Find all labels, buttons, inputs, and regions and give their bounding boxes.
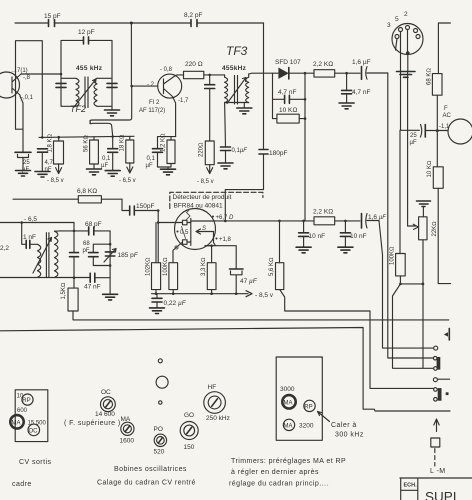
dashed link	[434, 449, 436, 466]
transformer TF2	[61, 78, 112, 106]
svg-text:RP: RP	[304, 404, 312, 410]
box CV sorties	[15, 390, 48, 442]
capacitor 25µF AGC	[424, 125, 426, 138]
svg-text:180pF: 180pF	[269, 150, 287, 157]
resistor 1,5K	[73, 278, 75, 288]
capacitor 8,2pF	[191, 20, 197, 27]
wire FI2 emitter down	[173, 97, 176, 137]
wire source to 47µF	[205, 246, 236, 269]
box link	[431, 438, 440, 447]
arrow -8,5v under 220	[207, 165, 213, 174]
capacitor 150pF injection	[122, 199, 158, 263]
capacitor 47nF	[90, 273, 95, 282]
svg-text:AC: AC	[443, 113, 452, 119]
svg-text:SUPI: SUPI	[425, 490, 457, 500]
svg-text:-,8: -,8	[23, 75, 31, 81]
wire pot bottom down	[422, 240, 424, 368]
svg-text:0,1: 0,1	[102, 156, 111, 162]
wire top right stub	[438, 23, 450, 74]
arrow pot wiper	[408, 224, 419, 229]
ground FI2 emitter	[161, 169, 176, 175]
capacitor 68pF padding	[93, 244, 110, 265]
svg-text:15 pF: 15 pF	[44, 13, 61, 20]
wire 1,6µF down right	[388, 73, 434, 358]
capacitor 185pF variable	[105, 252, 114, 256]
transformer TF3	[225, 74, 249, 103]
chassis symbol right	[448, 328, 450, 340]
capacitor 0,1µF emitter	[153, 149, 163, 153]
svg-text:1 nF: 1 nF	[23, 234, 36, 241]
connector DIN	[392, 24, 423, 55]
svg-text:OC: OC	[101, 389, 111, 396]
resistor 18K	[129, 136, 131, 140]
svg-text:cadre: cadre	[12, 481, 32, 488]
svg-text:100KΩ: 100KΩ	[390, 246, 396, 265]
wire neutralization tap to top bus	[130, 23, 132, 86]
wire diode to 2,2K	[289, 72, 314, 74]
ground 0,1µF TF3	[218, 163, 233, 169]
switch contact circle mid	[433, 378, 437, 382]
svg-text:Bobines oscillatrices: Bobines oscillatrices	[114, 466, 187, 473]
capacitor 4,7nF decoupling	[346, 73, 348, 103]
wire DIN pin5 down	[399, 32, 402, 254]
wire AGC line	[400, 129, 448, 131]
wire gate1	[158, 222, 182, 224]
svg-text:Caler à: Caler à	[331, 422, 357, 429]
capacitor 180pF	[259, 150, 268, 155]
svg-text:1,5KΩ: 1,5KΩ	[61, 282, 67, 299]
svg-text:- 6,5: - 6,5	[24, 216, 37, 223]
capacitor 0,22µF	[156, 294, 158, 308]
svg-text:10 nF: 10 nF	[309, 233, 326, 240]
svg-text:Détecteur de produit: Détecteur de produit	[173, 194, 232, 201]
wire 100K bottom to pot line	[400, 276, 423, 284]
svg-text:4,7 nF: 4,7 nF	[352, 89, 370, 96]
wire emitter AF117(1) down	[16, 96, 24, 152]
svg-text:2,2 KΩ: 2,2 KΩ	[313, 209, 333, 216]
svg-text:µF: µF	[101, 163, 108, 169]
wire 220ohm to TF3	[204, 74, 225, 76]
svg-text:AF 117(2): AF 117(2)	[139, 108, 165, 114]
svg-text:25: 25	[23, 160, 30, 166]
resistor 100K gate2	[169, 263, 178, 290]
svg-text:TF2: TF2	[70, 104, 86, 114]
svg-text:1,2 KΩ: 1,2 KΩ	[161, 133, 167, 152]
switch tick	[446, 392, 449, 395]
capacitor on 47nF leg	[73, 231, 75, 278]
svg-text:25: 25	[410, 133, 417, 139]
svg-text:pF: pF	[83, 248, 90, 254]
ground 10nF second	[338, 247, 353, 253]
svg-text:0,5: 0,5	[180, 230, 189, 236]
ground TF2	[111, 106, 113, 110]
wire FI2 base	[132, 85, 158, 87]
wire 10K down to switch	[438, 188, 450, 283]
svg-text:10 nF: 10 nF	[350, 233, 367, 240]
svg-text:455 kHz: 455 kHz	[76, 65, 103, 72]
svg-text:- 0,8: - 0,8	[160, 67, 173, 73]
svg-text:102KΩ: 102KΩ	[146, 257, 152, 276]
svg-text:68: 68	[83, 241, 90, 247]
capacitor TF3 tank	[205, 85, 215, 89]
svg-text:à régler en dernier après: à régler en dernier après	[231, 469, 319, 476]
svg-text:SFD 107: SFD 107	[275, 59, 301, 66]
wire tank right leg	[109, 231, 111, 294]
trimmer MA 3200	[283, 419, 294, 430]
svg-text:Trimmers: préréglages MA et RP: Trimmers: préréglages MA et RP	[231, 458, 346, 465]
bus2 wire	[0, 328, 450, 412]
capacitor 1,6µF mid electrolytic	[361, 214, 363, 229]
svg-text:2,2: 2,2	[0, 245, 9, 252]
resistor 56K	[93, 137, 95, 140]
wire TF2 secondary loop to FI2 base	[90, 86, 132, 136]
svg-text:réglage du cadran princip….: réglage du cadran princip….	[229, 481, 329, 488]
potentiometer 22K	[419, 217, 427, 240]
ground 0,1µF bias	[105, 171, 120, 177]
svg-text:3200: 3200	[299, 423, 314, 430]
capacitor 4,7nF diode load	[273, 73, 306, 99]
wire drain bus	[216, 220, 361, 222]
ground 4,7nF	[35, 172, 50, 178]
svg-text:3,3 KΩ: 3,3 KΩ	[201, 257, 207, 276]
trimmer RP	[304, 400, 315, 411]
svg-text:220Ω: 220Ω	[199, 142, 205, 157]
ground 10nF first	[296, 247, 311, 253]
ground DIN	[397, 72, 416, 78]
svg-text:1,6 µF: 1,6 µF	[368, 214, 386, 221]
svg-text:HF: HF	[208, 384, 217, 391]
ground 22K pot top	[417, 201, 431, 207]
svg-text:PO: PO	[154, 426, 163, 433]
svg-text:S: S	[202, 226, 206, 232]
wire box left shield	[16, 41, 43, 138]
svg-text:4,7: 4,7	[45, 160, 54, 166]
svg-text:8,2 pF: 8,2 pF	[184, 12, 202, 19]
svg-text:22KΩ: 22KΩ	[432, 221, 438, 237]
oscillator transformer	[38, 244, 41, 277]
capacitor 25µF electrolytic	[15, 151, 31, 153]
svg-text:MA: MA	[12, 420, 21, 426]
arrow up to switch	[434, 419, 439, 432]
svg-text:µF: µF	[146, 163, 153, 169]
arrow -8,5v under 1,8K	[56, 164, 62, 174]
svg-text:Calage du cadran CV rentré: Calage du cadran CV rentré	[97, 480, 196, 487]
resistor 1,2K	[167, 140, 175, 164]
svg-text:0,1µF: 0,1µF	[232, 148, 248, 154]
capacitor 10nF first	[303, 221, 305, 247]
box trimmers MA RP	[276, 357, 322, 440]
svg-text:F: F	[444, 106, 448, 112]
svg-text:-,0,1: -,0,1	[21, 95, 34, 101]
trimmer MA cv	[10, 415, 23, 428]
svg-text:3000: 3000	[280, 386, 295, 393]
capacitor 0,1µF bias	[112, 137, 114, 171]
arrow caler	[318, 412, 330, 422]
resistor 3,3K	[211, 246, 213, 263]
svg-text:100KΩ: 100KΩ	[163, 257, 169, 276]
resistor 1,8K	[58, 137, 60, 141]
svg-text:MA: MA	[284, 423, 293, 429]
svg-text:10 KΩ: 10 KΩ	[427, 160, 433, 177]
box detecteur de produit	[170, 192, 263, 208]
resistor 102K	[155, 223, 157, 263]
wire TF3 left leg	[209, 75, 211, 141]
transistor AF117(1)	[0, 72, 20, 98]
capacitor 10nF second	[344, 221, 346, 247]
oscillator feed wire	[0, 223, 74, 231]
svg-text:520: 520	[154, 449, 165, 456]
ground 0,22µF	[150, 308, 165, 314]
ground 4,7nF decoupling	[339, 103, 354, 109]
rail bias TF2 row	[39, 136, 134, 137]
svg-text:RP: RP	[22, 398, 30, 404]
svg-text:10 KΩ: 10 KΩ	[279, 107, 297, 114]
svg-text:- 8,5 v: - 8,5 v	[255, 292, 274, 299]
wire 47nF bottom	[0, 277, 110, 279]
svg-text:-1,7: -1,7	[178, 98, 189, 104]
svg-text:56 KΩ: 56 KΩ	[84, 135, 90, 152]
trimmer RP cv	[22, 394, 33, 405]
wire FI2 collector	[174, 75, 184, 77]
resistor 220 ohm emitter-leg	[205, 141, 214, 165]
label mosfet pins	[212, 216, 214, 218]
svg-text:TF3: TF3	[226, 44, 248, 58]
resistor 10K diode load	[273, 99, 306, 118]
svg-text:- 8,5 v: - 8,5 v	[47, 178, 64, 184]
svg-text:220 Ω: 220 Ω	[185, 61, 203, 68]
wire 2,2K to 1,6µF	[335, 72, 360, 74]
wire diode output down	[304, 73, 306, 221]
switch bar 2	[438, 388, 442, 401]
resistor 220 ohm collector	[184, 71, 204, 78]
capacitor 12pF	[84, 37, 89, 44]
resistor 6,8K	[13, 198, 122, 200]
capacitor 1,6µF top electrolytic	[361, 67, 363, 80]
wire 5,6K down and right (to switch)	[280, 290, 434, 389]
wire collector AF117(1) to TF2	[21, 73, 61, 75]
svg-text:5,6 KΩ: 5,6 KΩ	[269, 257, 275, 276]
resistor 68K	[432, 74, 442, 96]
svg-text:47 nF: 47 nF	[84, 284, 101, 291]
wire 1,6µF mid down to switch	[379, 221, 434, 349]
resistor 10K right	[436, 131, 438, 167]
resistor 100K right	[396, 254, 406, 276]
svg-text:1,8 KΩ: 1,8 KΩ	[48, 133, 54, 152]
wire TF3 to diode	[249, 72, 279, 75]
svg-text:1600: 1600	[120, 438, 135, 445]
svg-text:MA: MA	[284, 400, 293, 406]
alignment dots	[158, 359, 162, 363]
svg-text:FI 2: FI 2	[149, 100, 160, 106]
resistor 5,6K	[279, 221, 281, 263]
rail FI2 emitter	[158, 137, 176, 170]
wire 1,5K to bus1	[73, 311, 449, 320]
svg-text:1,6 µF: 1,6 µF	[352, 59, 371, 66]
wire vertical from top bus to detector	[225, 23, 263, 221]
capacitor 0,1µF TF3	[224, 103, 227, 164]
svg-text:0,1: 0,1	[147, 156, 156, 162]
capacitor 4,7nF	[38, 149, 48, 152]
ground 25µF	[16, 171, 31, 177]
svg-text:ECH.: ECH.	[404, 483, 418, 489]
resistor 2,2K mid	[314, 217, 335, 225]
svg-text:( F. supérieure ): ( F. supérieure )	[64, 420, 121, 427]
diode SFD107	[278, 68, 288, 79]
svg-text:2: 2	[404, 11, 408, 18]
switch bar 1	[437, 357, 441, 370]
svg-text:- 2: - 2	[147, 82, 155, 88]
svg-text:3: 3	[387, 22, 391, 29]
title block	[400, 478, 472, 500]
svg-text:OC: OC	[29, 428, 39, 434]
svg-text:18 KΩ: 18 KΩ	[120, 134, 126, 151]
capacitor 1nF	[22, 223, 38, 245]
svg-text:0,22 µF: 0,22 µF	[164, 300, 187, 307]
mosfet BFR84	[175, 209, 216, 250]
wire top bus	[15, 22, 264, 24]
svg-text:4,7 nF: 4,7 nF	[278, 89, 296, 96]
svg-text:150pF: 150pF	[136, 203, 154, 210]
transistor BF output (clipped)	[448, 119, 472, 144]
capacitor TF2 tank right	[107, 83, 117, 87]
svg-text:2,2 KΩ: 2,2 KΩ	[313, 61, 333, 68]
svg-text:455kHz: 455kHz	[222, 65, 247, 72]
svg-text:600: 600	[17, 408, 28, 414]
wire DIN pin2 down to ground and pot	[407, 30, 409, 227]
svg-text:µF: µF	[410, 140, 417, 146]
wire 68K to junction	[436, 95, 438, 131]
ground 56K	[93, 164, 95, 169]
trimmer OC cv	[28, 424, 40, 436]
wire branch down to switch bar1 lower	[393, 284, 434, 368]
svg-text:- 8,5 v: - 8,5 v	[197, 179, 214, 185]
svg-text:185 pF: 185 pF	[118, 252, 139, 259]
svg-text:12 pF: 12 pF	[78, 29, 95, 36]
svg-text:68 KΩ: 68 KΩ	[427, 68, 433, 85]
svg-text:300 kHz: 300 kHz	[335, 432, 364, 439]
capacitor 68pF series	[89, 227, 94, 235]
svg-text:6,8 KΩ: 6,8 KΩ	[77, 188, 97, 195]
svg-text:…7(1): …7(1)	[11, 68, 28, 74]
svg-text:CV sortis: CV sortis	[19, 459, 51, 466]
ground TF3	[243, 103, 245, 109]
switch contact circle 1	[434, 346, 438, 350]
arrow -6,5v under 18K	[127, 163, 133, 173]
ground oscillator	[103, 294, 118, 300]
svg-text:- 6,5 v: - 6,5 v	[119, 178, 136, 184]
svg-text:68 pF: 68 pF	[85, 221, 102, 228]
wire oscillator top	[55, 230, 111, 232]
svg-text:5: 5	[395, 16, 399, 23]
wire 12pF loop	[61, 40, 112, 78]
svg-text:GO: GO	[184, 412, 194, 419]
svg-text:47 µF: 47 µF	[240, 278, 258, 285]
wire DIN pin3 stub	[396, 39, 398, 51]
svg-text:150: 150	[184, 444, 195, 451]
resistor 2,2K top	[314, 70, 335, 77]
transistor FI2 AF117(2)	[158, 74, 182, 98]
svg-text:250 kHz: 250 kHz	[206, 415, 230, 422]
capacitor 47µF electrolytic	[230, 268, 244, 270]
wire gate2 to 100K	[173, 242, 183, 263]
rail -8,5v detector	[152, 290, 249, 294]
junction TF2 collector	[60, 73, 63, 76]
svg-text:14 600: 14 600	[95, 411, 115, 418]
capacitor TF2 tank left	[56, 83, 66, 87]
capacitor 15pF	[49, 20, 55, 27]
svg-text:+1,8: +1,8	[219, 237, 232, 243]
svg-text:L -M: L -M	[430, 468, 446, 475]
